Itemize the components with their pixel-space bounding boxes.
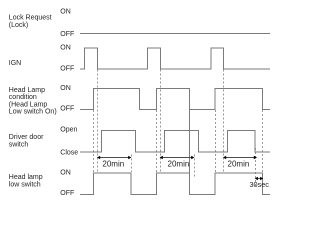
svg-text:ON: ON <box>60 170 71 177</box>
svg-text:condition: condition <box>9 94 37 101</box>
svg-text:OFF: OFF <box>60 105 74 112</box>
svg-text:Lock Request: Lock Request <box>9 15 52 22</box>
svg-text:ON: ON <box>60 9 71 16</box>
svg-text:IGN: IGN <box>9 60 21 67</box>
svg-text:Low switch On): Low switch On) <box>9 109 57 116</box>
svg-text:OFF: OFF <box>60 190 74 197</box>
svg-text:Head lamp: Head lamp <box>9 174 43 181</box>
svg-text:20min: 20min <box>102 160 124 169</box>
svg-text:Head Lamp: Head Lamp <box>9 87 45 94</box>
svg-text:switch: switch <box>9 141 29 148</box>
svg-text:Close: Close <box>60 150 78 157</box>
svg-text:(Lock): (Lock) <box>9 22 28 29</box>
svg-text:30sec: 30sec <box>249 180 269 189</box>
svg-text:OFF: OFF <box>60 31 74 38</box>
svg-text:20min: 20min <box>228 160 250 169</box>
svg-text:low switch: low switch <box>9 182 41 189</box>
svg-text:(Head Lamp: (Head Lamp <box>9 101 48 108</box>
svg-text:20min: 20min <box>168 160 190 169</box>
svg-text:ON: ON <box>60 45 71 52</box>
svg-text:Open: Open <box>60 126 77 133</box>
svg-text:ON: ON <box>60 85 71 92</box>
svg-text:OFF: OFF <box>60 66 74 73</box>
svg-text:Driver door: Driver door <box>9 134 44 141</box>
